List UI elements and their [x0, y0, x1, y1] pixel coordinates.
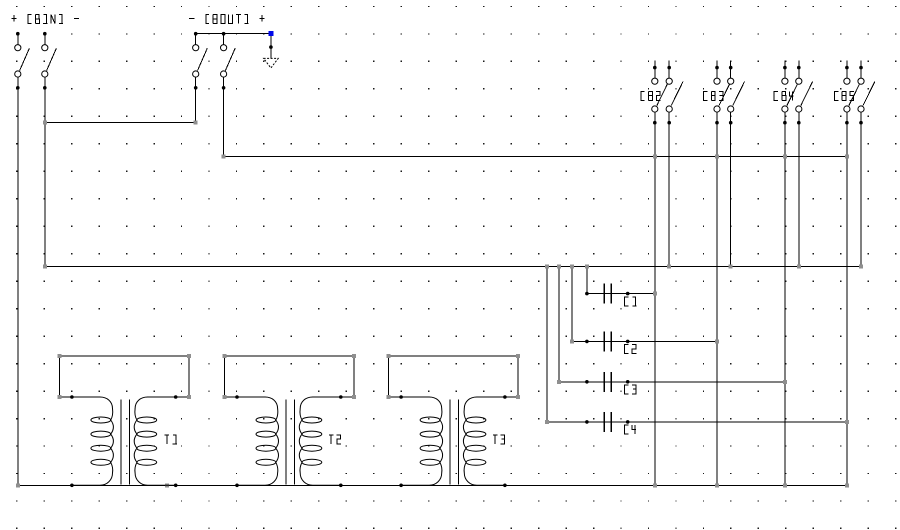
wire: drop from middle bus to C2 [571, 267, 573, 342]
wire: CB4 right pole vertical down to middle bus [798, 123, 800, 267]
switch SW2 (battery input -) [42, 32, 57, 90]
wire: bottom horizontal bus [18, 484, 847, 486]
wire: C1 row [587, 293, 655, 295]
transformer T3 [387, 354, 521, 487]
wire: CB3 right pole vertical down to middle bus [730, 123, 732, 267]
capacitor C4 [585, 412, 629, 432]
wire: horizontal bus from SW4 to breaker left poles [224, 155, 847, 157]
breaker CB3 right pole [728, 61, 745, 125]
switch SW3 (battery output -) [193, 32, 208, 90]
label C1 [625, 297, 637, 306]
wire: stub from terminal to ground [270, 36, 272, 59]
breaker CB4 left pole [782, 61, 799, 125]
label CB4 [774, 92, 794, 101]
wire: vertical from SW2 down to middle bus [44, 88, 46, 267]
transformer T2 [222, 354, 356, 487]
label C2 [625, 345, 637, 354]
breaker CB2 left pole [652, 61, 669, 125]
switch SW4 (battery output +) [221, 32, 236, 90]
wire: drop from middle bus to C4 [546, 267, 548, 422]
wire: upper-left horizontal bus joining SW2 and SW3 [45, 122, 196, 124]
label C4 [625, 425, 637, 434]
breaker CB5 right pole [858, 61, 875, 125]
wire: C4 row [547, 421, 847, 423]
label CB5 [834, 92, 854, 101]
breaker CB2 right pole [666, 61, 683, 125]
breaker CB4 right pole [796, 61, 813, 125]
wire: C3 row [559, 381, 785, 383]
capacitor C2 [585, 331, 629, 351]
wire: drop from middle bus to C3 [558, 267, 560, 382]
wire: CB2 right pole vertical down to middle bus [668, 123, 670, 267]
capacitor C1 [585, 284, 629, 304]
wire: top bar from SW3/SW4 to output terminal [196, 33, 271, 35]
wire: long middle horizontal bus from SW2 to CB5 right pole [45, 266, 861, 268]
wire: CB3 left pole vertical down to bottom bus [716, 123, 718, 486]
wire: CB4 left pole vertical down to bottom bus [784, 123, 786, 486]
wire: vertical from SW1 down the left side to bottom bus [17, 88, 19, 486]
wire: C2 row [572, 340, 717, 342]
transformer T1 [57, 354, 191, 487]
wire: vertical from SW3 down to upper-left bus [195, 88, 197, 123]
wire: drop from middle bus to C1 [586, 267, 588, 294]
label [BOUT] [189, 15, 264, 24]
wire: vertical from SW4 down to distribution bus [223, 88, 225, 157]
wire: CB5 left pole vertical down to bottom bus [846, 123, 848, 486]
label [BIN] [12, 15, 80, 24]
ground [264, 58, 279, 68]
switch SW1 (battery input +) [15, 32, 30, 90]
junction squares (net vertices) [16, 121, 863, 488]
breaker CB3 left pole [714, 61, 731, 125]
label C3 [625, 385, 637, 394]
capacitor C3 [585, 372, 629, 392]
breaker CB5 left pole [844, 61, 861, 125]
wire: CB5 right pole vertical down to middle bus [860, 123, 862, 267]
node: output terminal (blue square) [268, 31, 273, 36]
pin dot above ground [269, 45, 273, 49]
wire: CB2 left pole vertical down to bottom bus [654, 123, 656, 486]
label CB3 [704, 92, 723, 101]
label CB2 [641, 92, 661, 101]
